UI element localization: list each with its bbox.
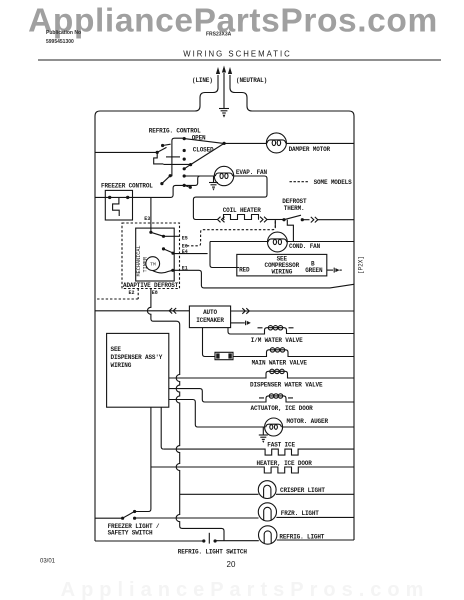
svg-text:TM: TM <box>150 262 156 268</box>
svg-text:AppliancePartsPros.com: AppliancePartsPros.com <box>28 3 438 40</box>
svg-text:REFRIG. LIGHT SWITCH: REFRIG. LIGHT SWITCH <box>178 548 248 555</box>
svg-text:GREEN: GREEN <box>305 267 323 274</box>
svg-text:(LINE): (LINE) <box>192 77 213 84</box>
svg-text:SOME MODELS: SOME MODELS <box>314 179 353 186</box>
svg-text:AUTO: AUTO <box>203 309 217 316</box>
svg-text:E3: E3 <box>144 216 150 222</box>
svg-text:AppliancePartsPros.com: AppliancePartsPros.com <box>61 579 430 600</box>
svg-text:E5: E5 <box>182 235 188 241</box>
svg-text:FRZR. LIGHT: FRZR. LIGHT <box>281 510 320 517</box>
svg-text:ICEMAKER: ICEMAKER <box>196 317 224 324</box>
svg-text:EVAP. FAN: EVAP. FAN <box>236 169 268 176</box>
svg-text:FREEZER CONTROL: FREEZER CONTROL <box>101 182 153 189</box>
svg-text:20: 20 <box>227 560 236 569</box>
svg-text:HEATER, ICE DOOR: HEATER, ICE DOOR <box>257 460 313 467</box>
svg-text:FRS23X3A: FRS23X3A <box>206 32 232 38</box>
svg-text:SAFETY SWITCH: SAFETY SWITCH <box>108 530 153 537</box>
svg-text:5995451300: 5995451300 <box>46 39 74 45</box>
svg-text:COND. FAN: COND. FAN <box>289 243 321 250</box>
svg-text:REFRIG. CONTROL: REFRIG. CONTROL <box>149 127 201 134</box>
svg-text:THERM.: THERM. <box>284 205 305 212</box>
svg-text:WIRING: WIRING <box>111 362 132 369</box>
svg-text:DISPENSER ASS'Y: DISPENSER ASS'Y <box>111 354 163 361</box>
svg-text:RED: RED <box>239 266 250 273</box>
svg-text:SEE: SEE <box>111 346 122 353</box>
svg-text:[P2X]: [P2X] <box>358 256 365 274</box>
svg-text:FAST ICE: FAST ICE <box>267 441 295 448</box>
svg-text:WIRING SCHEMATIC: WIRING SCHEMATIC <box>183 50 292 59</box>
svg-text:COIL HEATER: COIL HEATER <box>223 207 262 214</box>
svg-text:E8: E8 <box>152 290 158 296</box>
svg-text:03/01: 03/01 <box>40 559 56 565</box>
svg-text:ADAPTIVE DEFROST: ADAPTIVE DEFROST <box>123 282 179 289</box>
svg-text:E2: E2 <box>129 290 135 296</box>
svg-text:CRISPER LIGHT: CRISPER LIGHT <box>280 487 325 494</box>
svg-text:(NEUTRAL): (NEUTRAL) <box>236 77 267 84</box>
svg-text:MECHANICAL: MECHANICAL <box>136 245 142 276</box>
svg-text:DISPENSER WATER VALVE: DISPENSER WATER VALVE <box>250 381 323 388</box>
svg-text:WIRING: WIRING <box>271 269 292 276</box>
svg-text:DAMPER MOTOR: DAMPER MOTOR <box>289 146 331 153</box>
svg-text:MOTOR. AUGER: MOTOR. AUGER <box>287 418 329 425</box>
svg-text:MAIN WATER VALVE: MAIN WATER VALVE <box>252 360 308 367</box>
svg-text:REFRIG. LIGHT: REFRIG. LIGHT <box>279 534 324 541</box>
svg-text:I/M WATER VALVE: I/M WATER VALVE <box>251 337 303 344</box>
svg-text:Publication No: Publication No <box>46 30 81 36</box>
svg-text:ACTUATOR, ICE DOOR: ACTUATOR, ICE DOOR <box>251 405 314 412</box>
